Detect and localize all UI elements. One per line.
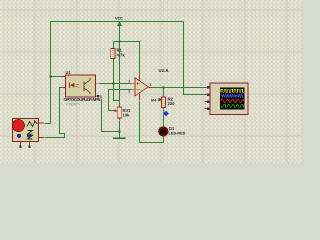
wire VCC stem down to RV1 top [119, 24, 121, 106]
wire RV1 bottom to ground [119, 121, 121, 138]
svg-text:220: 220 [168, 101, 176, 106]
ground [113, 137, 126, 139]
svg-text:U2:A: U2:A [159, 68, 169, 73]
svg-text:D1: D1 [169, 126, 175, 131]
svg-text:VCC: VCC [115, 16, 123, 20]
wire opto collector to op-amp + input [100, 83, 132, 85]
sensor LS1 (torch/LDR module) [12, 119, 44, 148]
wire top rail right leg to scope channel B [184, 22, 206, 95]
potentiometer RV1 [114, 106, 122, 121]
resistor R2 [161, 97, 165, 108]
power terminal VCC arrow [118, 22, 122, 42]
wire output node down to R2 [163, 88, 165, 98]
wire top VCC rail [51, 21, 184, 23]
probe marker blue diamond [163, 111, 168, 116]
svg-text:U1: U1 [66, 70, 72, 75]
wire R1 node down to RV1 line [114, 85, 120, 101]
svg-text:OPTOCOUPLER-NPN: OPTOCOUPLER-NPN [64, 97, 101, 102]
wire op-amp V+ supply drop [139, 42, 141, 76]
LED inside [69, 83, 71, 89]
wire branch to optocoupler pin1 [51, 76, 63, 78]
svg-text:4.7k: 4.7k [117, 52, 126, 57]
phototransistor inside [84, 78, 90, 94]
wire VCC horizontal feed [114, 41, 141, 43]
background dot grid [0, 0, 302, 163]
sensor right pins [39, 123, 45, 138]
voltage probe [151, 98, 162, 103]
svg-text:LED-RED: LED-RED [169, 132, 186, 136]
wire R1 line [113, 42, 115, 85]
wire op-amp V- down to D1 bottom [140, 101, 164, 143]
optocoupler U1 [62, 75, 101, 98]
wire R2 bottom to D1 top [163, 108, 165, 128]
pins [62, 77, 101, 99]
op-amp U2:A [132, 75, 153, 100]
svg-text:M4: M4 [151, 98, 157, 102]
scope screen [220, 88, 245, 110]
LED D1 [159, 127, 168, 136]
junction dots [50, 41, 165, 133]
wire op-amp - input to RV1 wiper [109, 90, 132, 111]
wire op-amp output to scope channel A [153, 87, 206, 89]
wire opto emitter to ground node [102, 99, 120, 132]
sensor bottom stubs [21, 142, 30, 147]
svg-text:1: 1 [149, 82, 151, 86]
oscilloscope [205, 83, 249, 115]
svg-text:3: 3 [128, 79, 130, 83]
svg-text:2: 2 [128, 90, 130, 94]
resistor R1 [111, 49, 115, 59]
svg-text:<TEXT>: <TEXT> [66, 103, 81, 107]
wire left leg VCC to sensor [45, 22, 51, 124]
wire opto pin2 to sensor bottom pin [45, 88, 65, 138]
svg-text:10k: 10k [123, 113, 131, 118]
